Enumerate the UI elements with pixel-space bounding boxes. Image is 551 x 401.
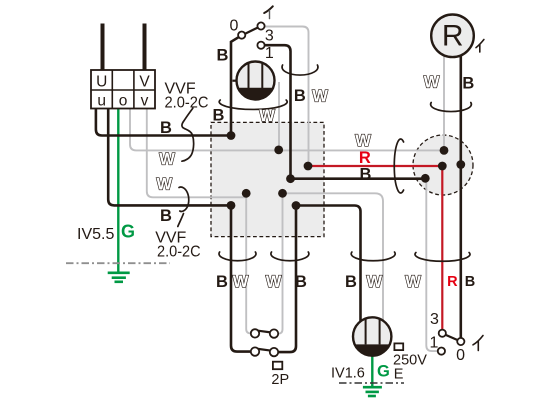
wire G earth IV1.6 <box>371 356 373 387</box>
wire G earth IV5.5 <box>117 109 119 273</box>
wire W to outlet 250V <box>283 193 384 320</box>
svg-text:v: v <box>141 93 149 110</box>
junction box (square, dashed) <box>211 122 324 236</box>
svg-text:B: B <box>345 273 357 291</box>
svg-text:B: B <box>217 46 229 64</box>
wire B switch terminal 1 to box <box>265 45 291 179</box>
svg-text:B: B <box>216 273 228 291</box>
wire B box to round box <box>291 177 426 180</box>
wire W lamp <box>278 82 280 150</box>
outlet 2P contact blade lower <box>258 349 272 351</box>
mark イ switch bottom <box>473 336 483 351</box>
lamp fixture (ceiling rosette) <box>237 62 275 100</box>
wire W to outlet 2P right <box>278 193 282 333</box>
svg-text:U: U <box>96 74 107 91</box>
cable arc top pair <box>282 65 318 75</box>
svg-text:W: W <box>367 273 383 291</box>
boundary dash-dot right <box>339 382 404 384</box>
label 2P with box <box>273 362 282 370</box>
cable marker S1 <box>182 108 194 161</box>
svg-text:1: 1 <box>430 334 439 351</box>
node dot B1 <box>227 131 236 140</box>
outlet 2P contact blade upper <box>258 331 272 333</box>
wire B to switch terminal 0 <box>231 37 239 135</box>
node dot B round box <box>456 160 465 169</box>
outlet 2P contact circles lower <box>251 347 259 355</box>
svg-text:0: 0 <box>229 18 238 35</box>
junction box (round, dashed) <box>413 135 473 195</box>
switch SW-bottom terminal 3 <box>439 330 446 337</box>
svg-text:2.0-2C: 2.0-2C <box>157 243 201 260</box>
ground symbol right <box>363 387 382 396</box>
wire W from switch terminal 3 <box>265 27 309 167</box>
label 250V with box <box>394 343 403 350</box>
cable marker S2 <box>178 187 189 226</box>
svg-text:250V: 250V <box>393 353 427 369</box>
wire B to outlet 2P right <box>278 206 296 353</box>
svg-text:R: R <box>359 149 371 167</box>
svg-text:V: V <box>139 74 150 91</box>
node dot B 2P left <box>227 201 236 210</box>
node dot W lamp <box>274 146 283 155</box>
wire R red horizontal <box>308 165 442 167</box>
boundary dash-dot left <box>66 262 170 264</box>
svg-text:B: B <box>462 75 474 93</box>
junction dots <box>227 131 466 210</box>
svg-text:B: B <box>213 107 225 125</box>
svg-text:W: W <box>157 176 173 194</box>
node dot B 2P right <box>292 201 301 210</box>
wire W to outlet 2P left <box>246 193 251 333</box>
switch SW-bottom terminal 0 <box>457 338 464 345</box>
svg-text:G: G <box>377 363 390 381</box>
outlet 2P contact circles upper <box>251 329 259 337</box>
svg-text:o: o <box>119 93 128 110</box>
svg-text:R: R <box>447 274 458 290</box>
wire B to outlet 250V <box>296 206 361 322</box>
svg-text:u: u <box>97 93 106 110</box>
switch SW-top terminal 0 <box>238 31 245 38</box>
svg-text:1: 1 <box>265 45 274 62</box>
svg-text:0: 0 <box>456 347 465 364</box>
wire B from receptacle R to switch terminal 0 <box>459 56 462 338</box>
cable arc bottom left 2 <box>271 252 309 261</box>
wire W from receptacle R <box>443 57 445 151</box>
svg-text:W: W <box>405 273 421 291</box>
wire R red vertical <box>441 166 443 330</box>
switch SW-bottom terminal 1 <box>438 348 445 355</box>
svg-text:B: B <box>295 273 307 291</box>
node dot BW round box <box>421 174 430 183</box>
feed wire V <box>143 24 147 71</box>
svg-text:2.0-2C: 2.0-2C <box>165 95 209 112</box>
cable arc bottom left 1 <box>219 252 256 261</box>
node dot R round box <box>438 162 447 171</box>
node dot W round box <box>440 146 449 155</box>
switch SW-top terminal 1 <box>257 42 264 49</box>
svg-text:B: B <box>160 119 172 137</box>
wire B source1 <box>96 109 231 136</box>
switch SW-top terminal 3 <box>257 22 264 29</box>
wire B source2 <box>108 109 231 206</box>
svg-text:2P: 2P <box>271 372 289 388</box>
svg-text:W: W <box>233 273 249 291</box>
switch SW-bottom blade <box>445 335 457 340</box>
node dot W-R <box>304 162 313 171</box>
mark イ switch top <box>264 6 273 13</box>
svg-text:W: W <box>424 74 440 92</box>
lamp stub <box>233 80 237 82</box>
svg-text:IV5.5: IV5.5 <box>77 226 114 243</box>
wire W source1 horizontal <box>130 109 444 151</box>
svg-text:B: B <box>160 207 172 225</box>
node dot B switch1 <box>286 174 295 183</box>
feed wire U <box>101 24 105 71</box>
switch SW-top blade <box>245 28 257 34</box>
svg-text:B: B <box>465 274 475 290</box>
outlet 250V round <box>353 317 391 355</box>
ground symbol left <box>108 273 130 282</box>
svg-text:W: W <box>266 273 282 291</box>
cable arc lamp <box>219 100 287 109</box>
wire W source2 <box>147 109 246 198</box>
svg-text:W: W <box>259 107 275 125</box>
node dot W 2P right <box>278 189 287 198</box>
svg-text:W: W <box>312 88 328 106</box>
cable arc bottom right 1 <box>351 252 395 261</box>
svg-text:3: 3 <box>265 27 274 44</box>
wire W round box to switch terminal 1 <box>426 178 438 351</box>
mark イ receptacle <box>476 40 484 53</box>
svg-text:W: W <box>159 151 175 169</box>
svg-text:W: W <box>355 132 371 150</box>
svg-text:R: R <box>442 20 464 53</box>
svg-text:G: G <box>121 222 135 242</box>
svg-text:IV1.6: IV1.6 <box>331 366 365 382</box>
node dot W 2P left <box>242 189 251 198</box>
terminal block <box>91 70 155 110</box>
cable arc receptacle pair <box>431 103 472 112</box>
svg-text:3: 3 <box>430 311 439 328</box>
cable arc vertical mid <box>394 139 403 193</box>
wire B to outlet 2P left <box>231 205 251 351</box>
cable arc bottom right 2 <box>415 253 470 262</box>
receptacle R <box>431 15 474 58</box>
svg-text:B: B <box>360 166 372 184</box>
svg-text:B: B <box>294 87 306 105</box>
